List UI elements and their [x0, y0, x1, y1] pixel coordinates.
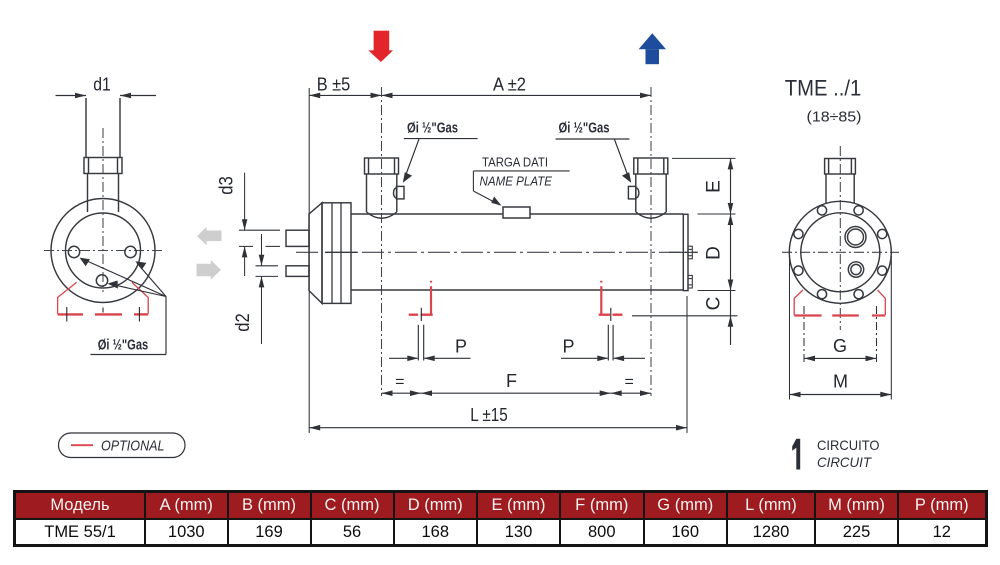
- svg-text:d3: d3: [217, 176, 238, 195]
- svg-text:P: P: [455, 337, 467, 357]
- svg-text:M: M: [833, 372, 848, 392]
- end cap tab lower: [688, 275, 692, 288]
- svg-text:=: =: [625, 373, 634, 390]
- shell bottom extension line: [698, 290, 736, 292]
- left view flange inner circle: [66, 213, 141, 288]
- svg-text:OPTIONAL: OPTIONAL: [101, 438, 165, 455]
- right view outer circle: [789, 201, 891, 303]
- left view d1 dimension: [56, 95, 157, 97]
- E dimension: [730, 158, 732, 214]
- svg-text:D: D: [704, 246, 725, 260]
- tapered head: [309, 203, 322, 304]
- svg-text:F: F: [506, 371, 517, 391]
- svg-text:d2: d2: [233, 313, 254, 332]
- svg-text:(18÷85): (18÷85): [807, 109, 862, 126]
- right red foot: [599, 281, 623, 315]
- flange center mark: [325, 251, 357, 253]
- P dimension right: [561, 357, 645, 359]
- shell body: [351, 214, 684, 290]
- right view top pipe: [825, 159, 856, 204]
- D dimension: [730, 214, 732, 291]
- L dimension: [309, 427, 687, 429]
- right nozzle: [634, 158, 668, 218]
- left view optional feet (red skirt): [58, 282, 149, 314]
- lower port: [848, 262, 863, 277]
- right view red skirt: [794, 290, 885, 315]
- red inlet arrow: [368, 31, 393, 62]
- right nozzle side plug: [628, 186, 638, 199]
- svg-text:E: E: [704, 180, 725, 193]
- svg-text:Øi ½"Gas: Øi ½"Gas: [98, 338, 149, 354]
- foot tick marks: [421, 308, 611, 321]
- tube-side flange: [322, 203, 351, 304]
- name plate tag outline: [473, 171, 569, 204]
- F dimension: [421, 392, 611, 394]
- shell end cap: [683, 214, 688, 290]
- right extension line: [686, 296, 688, 433]
- svg-text:CIRCUITO: CIRCUITO: [817, 437, 880, 453]
- svg-text:C: C: [704, 297, 725, 311]
- D extension line: [698, 213, 736, 215]
- shell centerline: [296, 251, 698, 253]
- d2 dimension: [256, 234, 279, 344]
- equal mark right: [611, 392, 651, 394]
- right view inner circle: [801, 213, 880, 292]
- B dimension: [309, 94, 381, 96]
- left view top pipe: [84, 98, 122, 212]
- svg-text:Øi ½"Gas: Øi ½"Gas: [559, 121, 610, 137]
- left gas leader: [404, 139, 478, 179]
- left bolt slot: [418, 325, 423, 361]
- equal mark left: [382, 392, 422, 394]
- svg-text:Øi ½"Gas: Øi ½"Gas: [407, 121, 458, 137]
- C dimension: [730, 291, 732, 346]
- svg-text:TME ../1: TME ../1: [785, 76, 862, 101]
- G dimension: [804, 357, 877, 359]
- optional legend box: [59, 433, 186, 458]
- right bolt slot: [608, 325, 613, 361]
- svg-text:CIRCUIT: CIRCUIT: [817, 454, 872, 470]
- left view port left: [68, 246, 79, 257]
- svg-text:TARGA DATI: TARGA DATI: [482, 155, 548, 170]
- gray arrow in: [197, 227, 222, 245]
- left view gas label leader: [82, 259, 167, 355]
- svg-text:G: G: [833, 336, 847, 356]
- end cap tab upper: [688, 246, 692, 259]
- svg-text:NAME PLATE: NAME PLATE: [480, 174, 553, 189]
- M extension lines: [790, 256, 892, 400]
- P dimension left: [389, 357, 471, 359]
- left nozzle: [365, 158, 399, 218]
- end cap center mark: [669, 251, 697, 253]
- svg-text:d1: d1: [93, 75, 111, 95]
- svg-text:=: =: [395, 373, 404, 390]
- blue outlet arrow: [639, 33, 666, 64]
- right nozzle centerline: [650, 87, 652, 396]
- lower stub pipe: [286, 266, 309, 277]
- left red foot: [409, 281, 433, 315]
- name plate on shell: [503, 207, 530, 218]
- left view foot tick marks: [67, 307, 140, 322]
- circuit count: [792, 439, 800, 470]
- right view centerlines: [782, 146, 899, 330]
- G extension lines: [804, 306, 877, 364]
- left view centerlines: [44, 128, 165, 292]
- left nozzle side plug: [394, 186, 404, 199]
- left nozzle centerline: [381, 87, 383, 396]
- upper stub pipe: [286, 230, 309, 246]
- E extension line: [672, 157, 736, 159]
- left view port bottom: [96, 275, 107, 286]
- left extension line: [308, 88, 310, 433]
- left view flange outer circle: [51, 199, 155, 303]
- d3 dimension: [239, 173, 280, 276]
- svg-text:L ±15: L ±15: [470, 405, 508, 425]
- M dimension: [790, 394, 892, 396]
- left view port right: [125, 246, 136, 257]
- data table: [13, 490, 988, 547]
- A dimension: [382, 94, 652, 96]
- gray arrow out: [197, 260, 222, 280]
- svg-text:P: P: [562, 337, 574, 357]
- upper port: [845, 227, 866, 248]
- bolt circles: [794, 206, 887, 299]
- svg-text:A ±2: A ±2: [493, 75, 526, 95]
- svg-text:B ±5: B ±5: [317, 75, 351, 95]
- right gas leader: [556, 139, 630, 179]
- foot base extension line: [632, 315, 738, 317]
- optional legend red dash: [71, 444, 93, 446]
